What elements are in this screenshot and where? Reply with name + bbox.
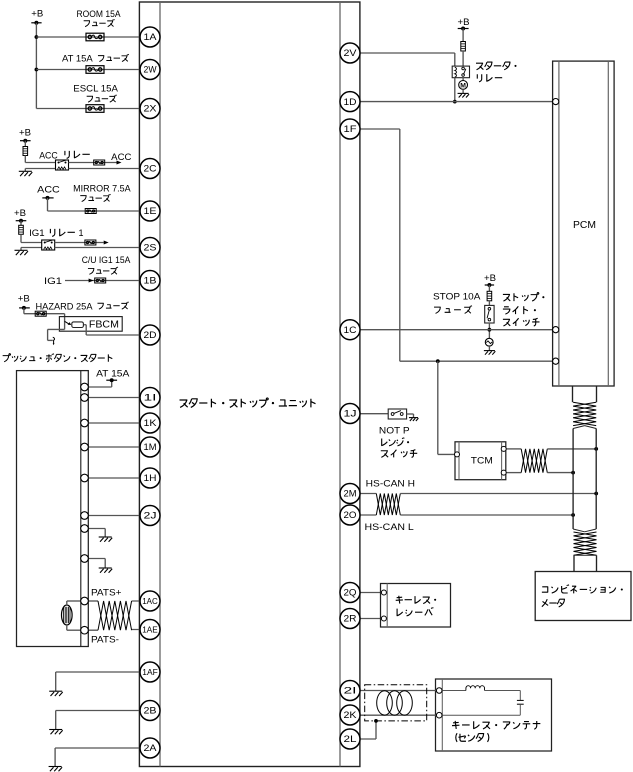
svg-text:2A: 2A bbox=[144, 743, 158, 754]
svg-text:2I: 2I bbox=[344, 686, 357, 697]
svg-text:2S: 2S bbox=[144, 243, 157, 254]
svg-text:HAZARD 25A: HAZARD 25A bbox=[36, 301, 93, 311]
svg-text:PATS-: PATS- bbox=[91, 635, 119, 645]
svg-text:ACC: ACC bbox=[111, 152, 132, 162]
svg-text:1J: 1J bbox=[344, 409, 357, 420]
svg-text:2D: 2D bbox=[144, 330, 157, 341]
svg-text:1A: 1A bbox=[144, 32, 158, 43]
svg-text:2V: 2V bbox=[344, 48, 358, 59]
svg-text:1F: 1F bbox=[344, 124, 357, 135]
svg-text:+B: +B bbox=[484, 273, 496, 284]
svg-text:+B: +B bbox=[31, 9, 43, 20]
svg-text:2B: 2B bbox=[144, 706, 157, 717]
svg-text:STOP 10A: STOP 10A bbox=[433, 292, 480, 302]
svg-text:NOT P: NOT P bbox=[379, 426, 410, 437]
svg-text:1AC: 1AC bbox=[142, 597, 158, 606]
svg-text:MIRROR 7.5A: MIRROR 7.5A bbox=[73, 183, 131, 193]
svg-text:ACC: ACC bbox=[37, 184, 60, 194]
svg-text:1H: 1H bbox=[144, 473, 157, 484]
svg-text:HS-CAN L: HS-CAN L bbox=[365, 522, 414, 532]
svg-text:TCM: TCM bbox=[471, 456, 493, 467]
svg-text:1I: 1I bbox=[144, 393, 157, 404]
svg-text:IG1: IG1 bbox=[29, 228, 44, 238]
svg-text:PCM: PCM bbox=[573, 219, 596, 231]
svg-text:1D: 1D bbox=[344, 97, 357, 108]
svg-text:2K: 2K bbox=[344, 710, 358, 721]
svg-text:ESCL 15A: ESCL 15A bbox=[73, 84, 118, 94]
svg-text:1M: 1M bbox=[144, 442, 157, 453]
svg-text:2X: 2X bbox=[144, 104, 158, 115]
svg-text:1AF: 1AF bbox=[142, 668, 158, 677]
svg-text:C/U IG1 15A: C/U IG1 15A bbox=[82, 255, 131, 265]
svg-text:+B: +B bbox=[458, 17, 470, 28]
svg-text:PATS+: PATS+ bbox=[91, 588, 122, 598]
svg-text:M: M bbox=[460, 82, 466, 89]
svg-text:IG1: IG1 bbox=[44, 276, 62, 286]
svg-text:2J: 2J bbox=[144, 511, 157, 522]
svg-text:1E: 1E bbox=[144, 206, 157, 217]
svg-text:ROOM 15A: ROOM 15A bbox=[77, 9, 121, 19]
svg-text:2Q: 2Q bbox=[344, 588, 357, 599]
svg-text:HS-CAN H: HS-CAN H bbox=[366, 479, 415, 489]
svg-text:AT 15A: AT 15A bbox=[96, 368, 129, 378]
svg-text:+B: +B bbox=[19, 127, 31, 138]
svg-text:1B: 1B bbox=[144, 276, 157, 287]
svg-text:ACC: ACC bbox=[39, 150, 58, 160]
svg-text:1K: 1K bbox=[144, 418, 158, 429]
svg-text:1: 1 bbox=[79, 228, 84, 238]
svg-text:1AE: 1AE bbox=[142, 626, 158, 635]
svg-text:2R: 2R bbox=[344, 614, 357, 625]
svg-text:2M: 2M bbox=[344, 489, 357, 500]
svg-text:2C: 2C bbox=[144, 164, 157, 175]
svg-text:+B: +B bbox=[18, 293, 30, 304]
svg-text:1C: 1C bbox=[344, 325, 357, 336]
svg-text:+B: +B bbox=[14, 208, 26, 219]
svg-text:2W: 2W bbox=[144, 65, 157, 76]
svg-text:2L: 2L bbox=[344, 734, 357, 745]
svg-text:AT 15A: AT 15A bbox=[62, 54, 93, 64]
svg-text:2O: 2O bbox=[344, 510, 357, 521]
svg-text:FBCM: FBCM bbox=[89, 319, 119, 331]
